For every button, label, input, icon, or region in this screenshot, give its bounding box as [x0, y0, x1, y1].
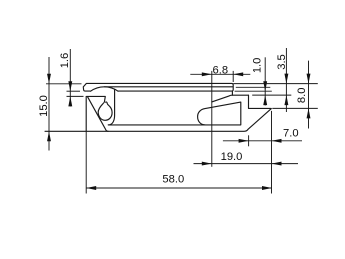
wedge top line to right tip	[249, 107, 272, 109]
ext line top-left plate top	[46, 83, 82, 85]
dim line 6.8	[190, 73, 250, 75]
svg-text:6.8: 6.8	[213, 64, 229, 76]
arrow 1.0 top	[263, 81, 267, 91]
dim line 3.5	[285, 48, 287, 112]
plate inner mid line	[105, 86, 233, 88]
arrow 15.0 bottom	[47, 131, 51, 141]
screw pocket	[198, 102, 241, 125]
arrow 19.0 left	[202, 162, 212, 166]
ext line x=271.5 right side	[271, 111, 273, 194]
arrow 1.6 bottom	[68, 96, 72, 106]
hook top edge	[86, 95, 105, 97]
ext line tip right	[272, 107, 318, 109]
arrow 15.0 top	[47, 74, 51, 84]
arrow 7.0 right	[272, 139, 282, 143]
step diagonal and step line	[212, 95, 249, 102]
svg-text:1.0: 1.0	[251, 58, 263, 74]
arrow 1.0 bottom	[263, 95, 267, 105]
arrow 58.0 right	[262, 186, 272, 190]
ext line plate bottom right	[235, 90, 272, 92]
hook left diagonal brace	[88, 97, 109, 132]
hook outer wall	[108, 89, 114, 125]
dim line 7.0	[223, 140, 302, 142]
inner web line	[108, 124, 205, 126]
tick 1.6 upper	[67, 90, 81, 92]
arrow 19.0 right	[272, 162, 282, 166]
ext line step right	[252, 94, 291, 96]
profile plate outline (top flange)	[83, 83, 233, 91]
svg-text:3.5: 3.5	[276, 54, 288, 70]
plate end drop edge	[231, 91, 233, 95]
arrow 58.0 left	[86, 186, 96, 190]
arrow 6.8 right	[233, 72, 243, 76]
arrow 7.0 left	[239, 139, 249, 143]
ext line x=211.8 (6.8 left / 19.0 left)	[211, 71, 213, 167]
dim line 8.0	[308, 61, 310, 129]
svg-text:19.0: 19.0	[221, 151, 243, 163]
tick 1.6 lower	[67, 95, 84, 97]
svg-text:1.6: 1.6	[59, 53, 71, 69]
arrow 3.5 top	[284, 74, 288, 84]
profile bottom line with left extension	[45, 109, 271, 132]
ext line plate top right	[233, 83, 317, 85]
svg-text:58.0: 58.0	[162, 173, 184, 185]
hook slot and round cavity (inner boundary)	[98, 96, 112, 120]
dim line 1.6	[69, 49, 71, 107]
dim line 58.0	[86, 187, 272, 189]
dim line 19.0	[194, 163, 299, 165]
arrow 8.0 top	[307, 74, 311, 84]
arrow 3.5 bottom	[284, 95, 288, 105]
dim line 1.0	[264, 57, 266, 105]
dim line 15.0	[48, 57, 50, 151]
ext line x=233.2 (6.8 right)	[232, 71, 234, 82]
ext line x=248.6 below	[248, 135, 250, 146]
arrow 1.6 top	[68, 81, 72, 91]
svg-text:7.0: 7.0	[283, 127, 299, 139]
ext line x=86.2 below	[85, 131, 87, 193]
gasket arc bump under plate	[91, 87, 118, 91]
left wall	[85, 97, 87, 132]
ext line plate mid right	[236, 86, 270, 88]
svg-text:15.0: 15.0	[38, 95, 50, 117]
svg-text:8.0: 8.0	[296, 88, 308, 104]
arrow 6.8 left	[202, 72, 212, 76]
arrow 8.0 bottom	[307, 108, 311, 118]
web vertical edge	[248, 95, 250, 108]
